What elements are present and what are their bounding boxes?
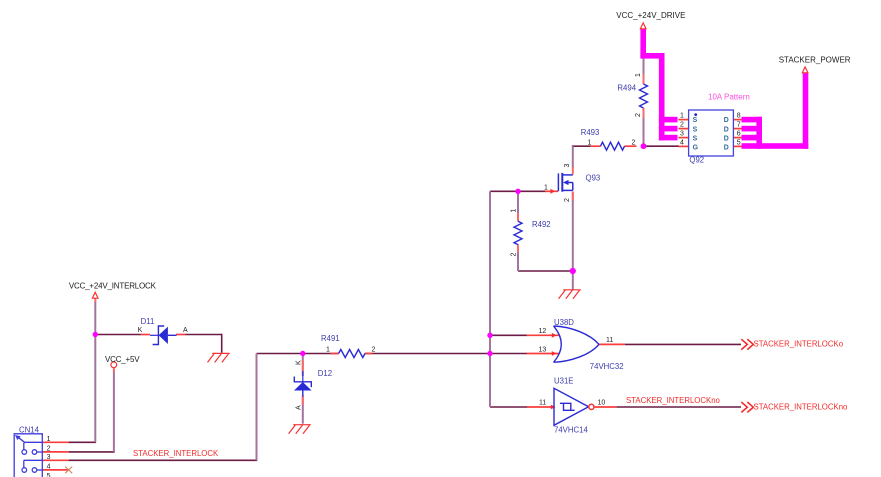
svg-text:R493: R493: [581, 128, 600, 137]
svg-text:STACKER_INTERLOCK: STACKER_INTERLOCK: [133, 449, 219, 458]
svg-text:U38D: U38D: [554, 318, 574, 327]
svg-text:A: A: [183, 327, 188, 334]
svg-text:2: 2: [511, 253, 518, 257]
svg-text:S: S: [693, 135, 698, 142]
svg-text:74VHC32: 74VHC32: [590, 362, 624, 371]
svg-text:D11: D11: [141, 317, 155, 326]
svg-text:2: 2: [564, 198, 571, 202]
svg-text:4: 4: [47, 464, 51, 471]
svg-text:10: 10: [598, 400, 606, 407]
svg-text:D12: D12: [318, 369, 332, 378]
svg-text:8: 8: [737, 113, 741, 120]
svg-text:2: 2: [680, 122, 684, 129]
svg-text:1: 1: [635, 73, 642, 77]
svg-text:1: 1: [326, 346, 330, 353]
svg-text:D: D: [724, 117, 729, 124]
svg-text:13: 13: [539, 346, 547, 353]
svg-text:STACKER_INTERLOCKo: STACKER_INTERLOCKo: [754, 340, 844, 349]
svg-text:1: 1: [47, 436, 51, 443]
svg-text:74VHC14: 74VHC14: [554, 426, 588, 435]
svg-text:Q93: Q93: [586, 173, 601, 182]
svg-text:D: D: [724, 135, 729, 142]
svg-text:G: G: [693, 145, 698, 152]
svg-text:6: 6: [737, 131, 741, 138]
svg-text:3: 3: [680, 131, 684, 138]
svg-text:STACKER_INTERLOCKno: STACKER_INTERLOCKno: [626, 396, 721, 405]
svg-text:1: 1: [680, 113, 684, 120]
svg-text:VCC_+5V: VCC_+5V: [105, 355, 140, 364]
svg-text:R491: R491: [321, 334, 340, 343]
svg-text:5: 5: [737, 139, 741, 146]
svg-text:12: 12: [539, 328, 547, 335]
svg-text:1: 1: [511, 209, 518, 213]
svg-text:2: 2: [372, 346, 376, 353]
svg-text:CN14: CN14: [19, 425, 40, 434]
svg-text:Q92: Q92: [689, 155, 704, 164]
svg-text:R492: R492: [532, 220, 551, 229]
svg-text:STACKER_POWER: STACKER_POWER: [779, 56, 851, 65]
svg-text:11: 11: [539, 400, 546, 407]
svg-text:K: K: [295, 360, 302, 365]
svg-text:K: K: [138, 327, 143, 334]
svg-text:1: 1: [544, 184, 548, 191]
svg-text:R494: R494: [617, 84, 636, 93]
svg-text:S: S: [693, 117, 698, 124]
svg-text:5: 5: [47, 473, 51, 477]
svg-text:4: 4: [680, 139, 684, 146]
svg-text:7: 7: [737, 122, 741, 129]
svg-text:2: 2: [635, 113, 642, 117]
svg-text:3: 3: [564, 164, 571, 168]
svg-text:10A Pattern: 10A Pattern: [708, 93, 750, 102]
svg-text:1: 1: [588, 139, 592, 146]
svg-text:U31E: U31E: [554, 377, 574, 386]
svg-text:3: 3: [47, 454, 51, 461]
svg-text:S: S: [693, 126, 698, 133]
svg-text:VCC_+24V_DRIVE: VCC_+24V_DRIVE: [616, 11, 685, 20]
svg-text:D: D: [724, 126, 729, 133]
svg-text:A: A: [295, 405, 302, 410]
svg-text:2: 2: [632, 139, 636, 146]
svg-text:D: D: [724, 145, 729, 152]
svg-text:2: 2: [47, 446, 51, 453]
svg-text:VCC_+24V_INTERLOCK: VCC_+24V_INTERLOCK: [69, 282, 157, 291]
svg-text:STACKER_INTERLOCKno: STACKER_INTERLOCKno: [754, 403, 849, 412]
svg-text:11: 11: [606, 337, 613, 344]
